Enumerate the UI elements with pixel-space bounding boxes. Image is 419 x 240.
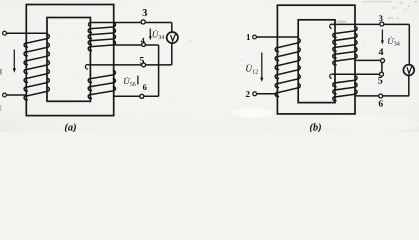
wire 4 (b): [355, 59, 381, 61]
terminal 3 (b): [380, 22, 384, 26]
core outer rectangle (b): [277, 5, 355, 114]
svg-text:4: 4: [379, 47, 384, 58]
scan noise marks: [337, 21, 347, 23]
wire 3 (a): [92, 22, 172, 24]
voltage bar U56 (a): [137, 76, 139, 85]
terminal 6 (b): [379, 94, 383, 98]
secondary winding 5-6 (b): [333, 76, 357, 101]
scan artifacts: white patches and corner specks: [232, 108, 274, 118]
wire 4 (a): [113, 44, 158, 46]
winding curl at wire 5 start (a): [85, 65, 89, 70]
wire 5 (b): [333, 73, 380, 75]
svg-text:(b): (b): [309, 122, 321, 132]
svg-text:1: 1: [246, 32, 251, 42]
core inner rectangle (a): [47, 18, 90, 102]
voltage arrow U34 (b): [381, 30, 383, 42]
terminal 5 (a): [142, 63, 146, 67]
link wire 4-6 (a): [158, 45, 160, 96]
winding curl at wire 5 start (b): [330, 74, 333, 78]
terminal 5 (b): [380, 72, 384, 76]
voltmeter V1 (a): [167, 32, 178, 43]
primary winding (b): [275, 38, 300, 96]
svg-text:3: 3: [142, 8, 147, 19]
svg-text:6: 6: [378, 100, 383, 110]
svg-text:5: 5: [139, 55, 144, 66]
voltmeter top stem (b): [408, 24, 410, 64]
primary winding (a): [24, 34, 49, 100]
wire 6 (b): [355, 95, 409, 97]
svg-text:6: 6: [143, 82, 147, 92]
wire terminal2 (a): [6, 94, 26, 96]
wire 3 (b): [333, 23, 410, 25]
voltmeter top stem (a): [171, 23, 173, 33]
svg-text:3: 3: [379, 13, 383, 23]
wire 6 (a): [113, 95, 159, 97]
terminal 4 (b): [381, 59, 385, 63]
paper speckles: [136, 21, 137, 22]
winding curl at wire 3 start (b): [330, 24, 333, 28]
terminal 4 (a): [142, 43, 146, 47]
voltmeter bottom stem (b): [408, 75, 410, 96]
terminal 2 (b): [253, 92, 257, 96]
terminal 2 (a): [3, 93, 7, 97]
wire 5 (a): [89, 64, 172, 66]
terminal 3 (a): [141, 20, 145, 24]
current arrow (a): [13, 50, 15, 71]
winding curl at wire 3 start (a): [88, 22, 91, 26]
wire terminal2 (b): [257, 93, 278, 95]
svg-text:5: 5: [378, 76, 383, 87]
terminal 6 (a): [140, 94, 144, 98]
core outer rectangle (a): [26, 5, 113, 116]
wire terminal1 (b): [256, 36, 298, 38]
terminal 1 (a): [3, 31, 7, 35]
terminal 1 (b): [253, 35, 257, 39]
secondary winding 5-6 (a): [88, 70, 115, 98]
voltmeter bottom stem (a): [171, 43, 173, 65]
secondary winding 3-4 (b): [333, 26, 357, 65]
secondary winding 3-4 (a): [88, 23, 115, 51]
voltmeter V2 (b): [403, 65, 414, 76]
core inner rectangle (b): [298, 20, 335, 103]
voltage arrow U12 (b): [261, 53, 263, 80]
wire terminal1 (a): [6, 32, 47, 34]
svg-text:(a): (a): [64, 123, 76, 132]
svg-text:2: 2: [246, 89, 251, 99]
svg-text:4: 4: [141, 36, 145, 45]
link wire 4-5 (b): [381, 63, 383, 73]
voltage arrow U34 (a): [149, 29, 151, 38]
